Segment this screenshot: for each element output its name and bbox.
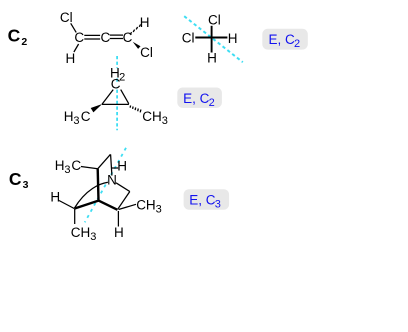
svg-text:CH: CH (71, 225, 91, 240)
svg-text:Cl: Cl (60, 10, 73, 25)
svg-text:3: 3 (90, 231, 96, 243)
svg-text:Cl: Cl (140, 45, 153, 60)
svg-text:H: H (50, 190, 60, 205)
svg-text:2: 2 (209, 97, 215, 109)
svg-text:C: C (101, 30, 111, 45)
svg-text:2: 2 (21, 36, 27, 48)
svg-text:3: 3 (215, 199, 221, 211)
svg-text:E, C: E, C (189, 193, 216, 208)
svg-text:C: C (8, 26, 21, 46)
svg-text:C: C (71, 158, 81, 173)
svg-text:3: 3 (73, 115, 79, 127)
svg-text:H: H (64, 109, 74, 124)
svg-text:C: C (74, 30, 84, 45)
svg-text:Cl: Cl (208, 12, 221, 27)
svg-text:3: 3 (23, 179, 29, 191)
svg-text:H: H (228, 31, 238, 46)
svg-text:E, C: E, C (183, 91, 210, 106)
svg-text:E, C: E, C (269, 32, 296, 47)
svg-text:H: H (140, 15, 150, 30)
svg-text:3: 3 (64, 164, 70, 176)
svg-text:H: H (55, 158, 65, 173)
svg-text:N: N (107, 173, 117, 188)
svg-text:H: H (66, 51, 76, 66)
svg-text:3: 3 (162, 115, 168, 127)
svg-text:2: 2 (294, 38, 300, 50)
svg-text:H: H (207, 50, 217, 65)
svg-text:CH: CH (136, 197, 156, 212)
svg-text:C: C (111, 77, 121, 92)
svg-text:3: 3 (156, 203, 162, 215)
svg-text:CH: CH (142, 109, 162, 124)
svg-text:C: C (81, 109, 91, 124)
svg-text:C: C (9, 169, 22, 189)
svg-text:H: H (114, 225, 124, 240)
svg-text:Cl: Cl (182, 31, 195, 46)
svg-text:H: H (117, 158, 127, 173)
